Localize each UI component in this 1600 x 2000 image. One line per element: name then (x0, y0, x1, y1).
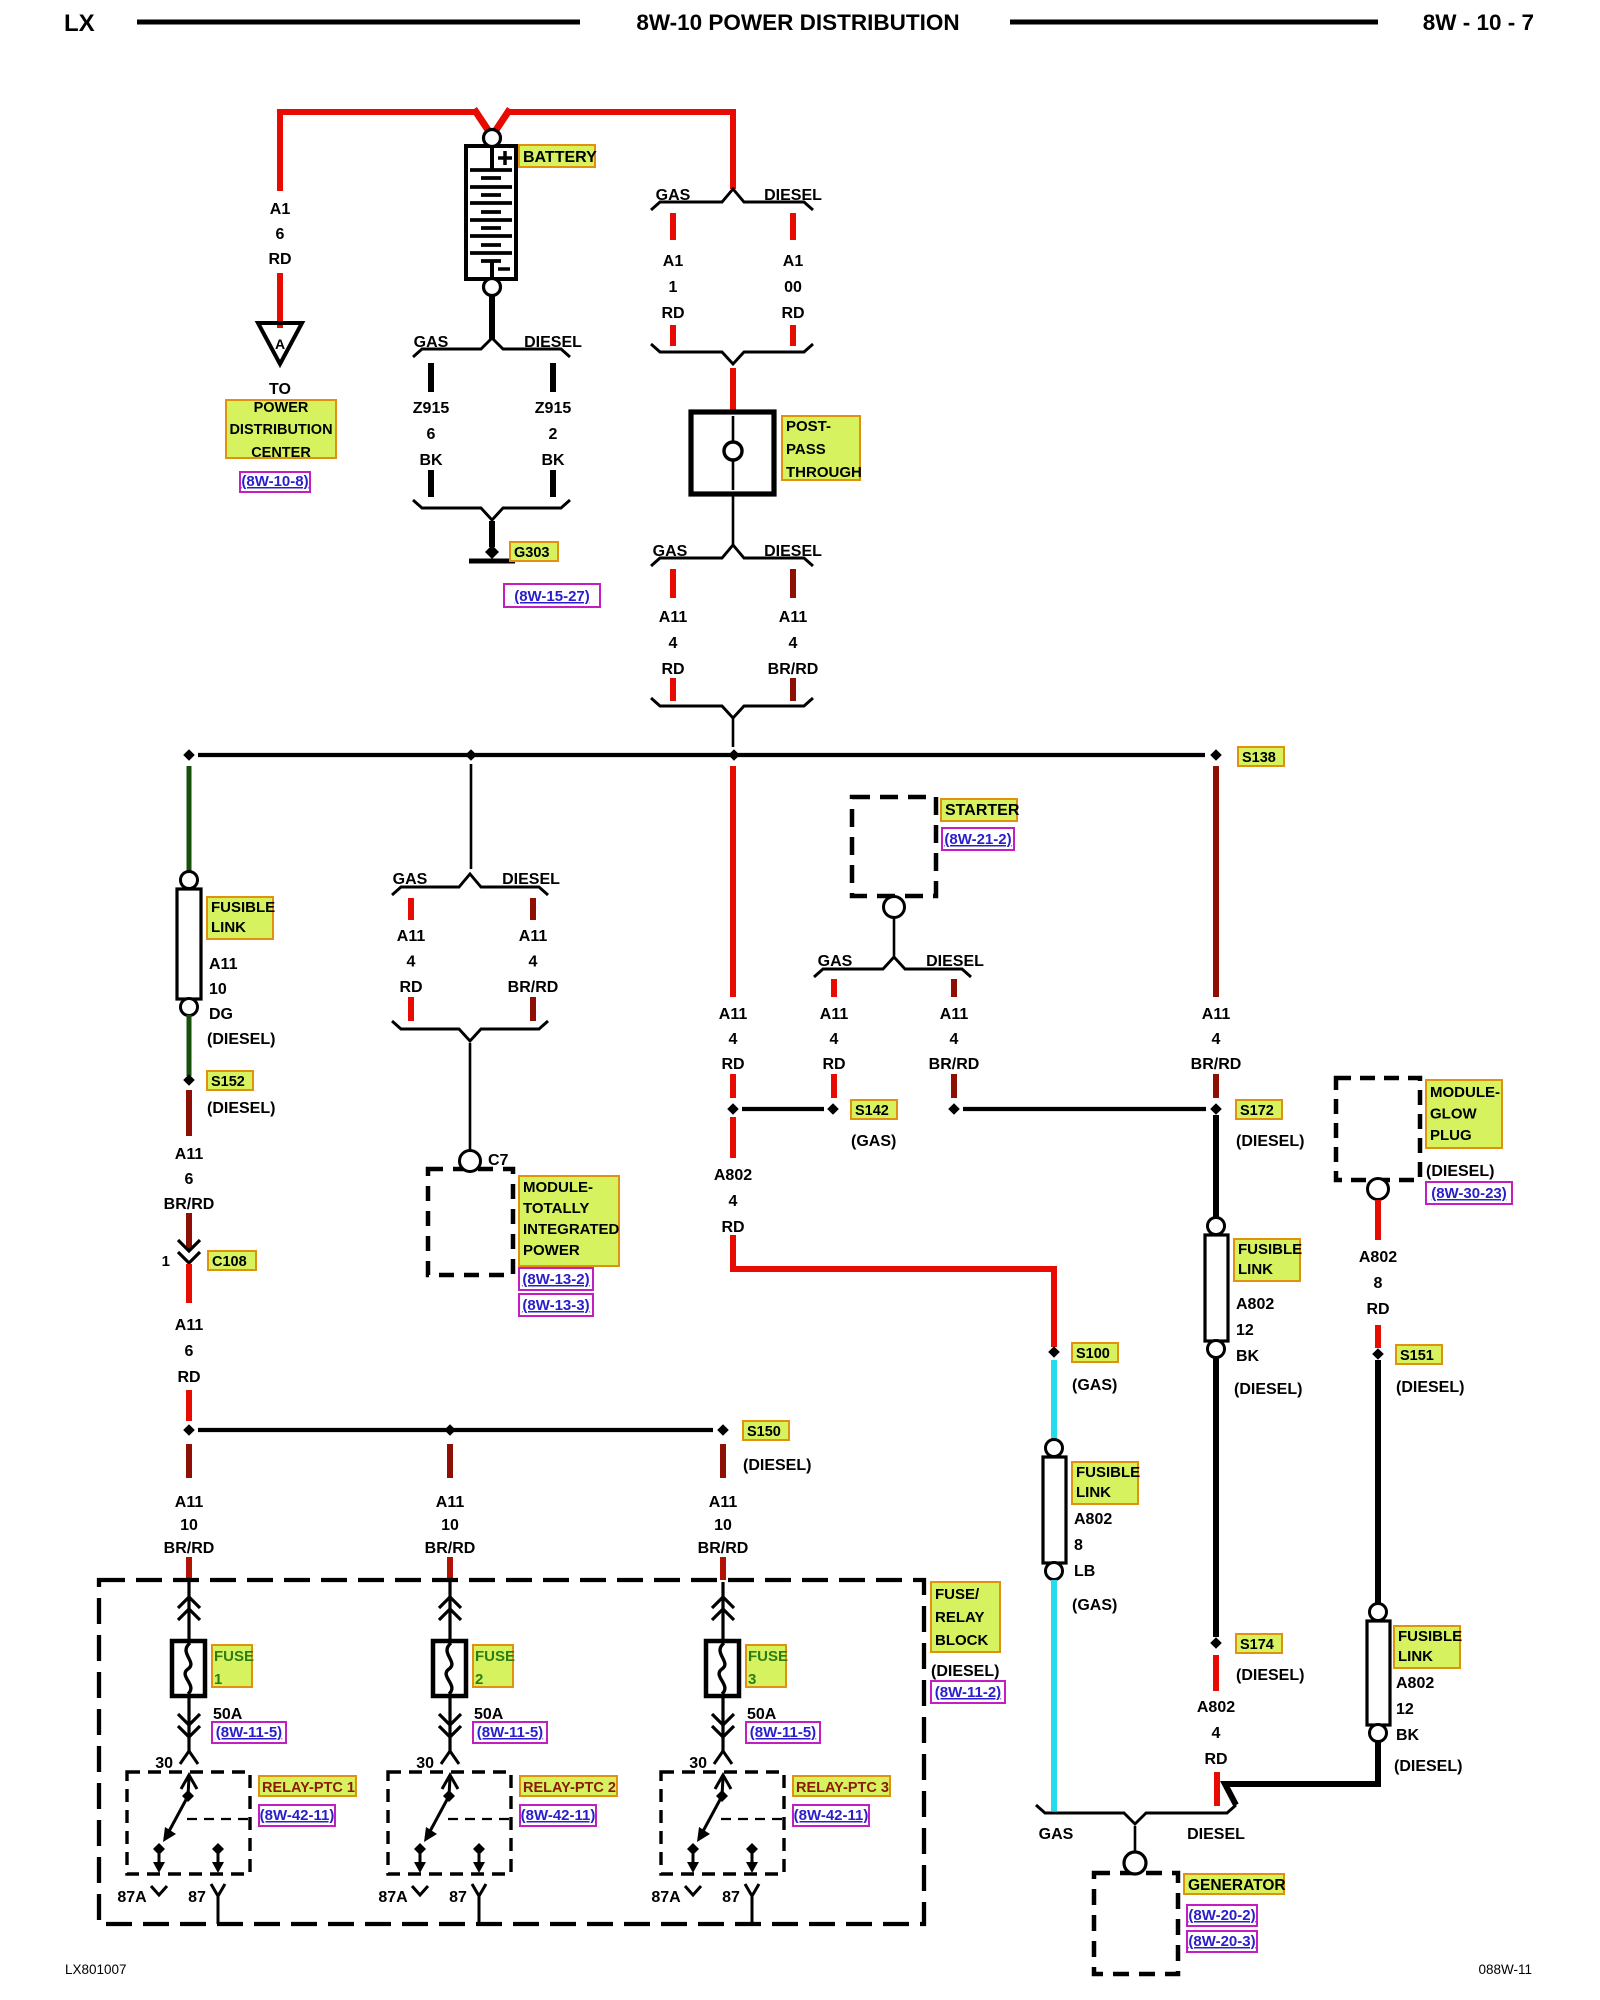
link 8W-10-8 (240, 472, 310, 492)
svg-text:S142: S142 (855, 1103, 889, 1119)
label wire A11 4 BR/RD starter (929, 1006, 980, 1073)
svg-text:BR/RD: BR/RD (425, 1540, 476, 1557)
svg-text:(8W-42-11): (8W-42-11) (260, 1807, 335, 1824)
svg-text:A1: A1 (270, 201, 291, 218)
wire A802 8 RD (1375, 1200, 1381, 1348)
overbrace GAS/DIESEL A1 split (651, 187, 822, 210)
node S152 (183, 1074, 195, 1086)
svg-text:GLOW: GLOW (1430, 1106, 1477, 1123)
svg-text:4: 4 (789, 635, 798, 652)
svg-text:A802: A802 (1197, 1699, 1235, 1716)
label wire A1 00 RD (781, 253, 804, 322)
svg-text:LB: LB (1074, 1563, 1095, 1580)
label wire A11 6 RD (175, 1317, 204, 1386)
svg-text:4: 4 (1212, 1031, 1221, 1048)
wire S172 to fusible link (1213, 1115, 1219, 1219)
label (DIESEL) dg (207, 1031, 275, 1048)
svg-text:A802: A802 (1359, 1249, 1397, 1266)
wire dash A11 4 BR/RD starter (951, 1074, 957, 1098)
svg-text:A1: A1 (663, 253, 684, 270)
node S172 (948, 1103, 1222, 1115)
wire A802 8 LB lower (1051, 1580, 1057, 1811)
svg-text:BR/RD: BR/RD (698, 1540, 749, 1557)
label (DIESEL) s150 (743, 1457, 811, 1474)
wire fusible link to generator diesel (1225, 1742, 1378, 1805)
svg-text:4: 4 (407, 954, 416, 971)
svg-text:GAS: GAS (393, 871, 428, 888)
svg-text:DIESEL: DIESEL (926, 953, 984, 970)
svg-text:GENERATOR: GENERATOR (1188, 1877, 1286, 1894)
svg-text:RD: RD (399, 979, 422, 996)
svg-text:30: 30 (689, 1755, 707, 1772)
svg-text:4: 4 (830, 1031, 839, 1048)
svg-text:10: 10 (180, 1517, 198, 1534)
svg-text:30: 30 (416, 1755, 434, 1772)
wire dash A11 4 BR/RD right (1213, 1074, 1219, 1098)
fuse/relay block box (99, 1580, 924, 1924)
svg-text:A11: A11 (659, 609, 688, 626)
svg-text:87: 87 (722, 1889, 740, 1906)
label wire A802 12 BK (s151) (1396, 1675, 1434, 1744)
svg-text:RD: RD (1366, 1301, 1389, 1318)
link 8W-30-23 (1426, 1182, 1512, 1204)
generator box (1094, 1873, 1178, 1974)
node S152 label (207, 1071, 253, 1090)
label wire A11 4 BR/RD (768, 609, 819, 678)
svg-text:(8W-11-2): (8W-11-2) (935, 1684, 1001, 1701)
svg-text:TOTALLY: TOTALLY (523, 1200, 589, 1217)
svg-text:(GAS): (GAS) (1072, 1377, 1117, 1394)
node S100 label (1072, 1343, 1118, 1362)
highlight FUSE/RELAY BLOCK (931, 1582, 1000, 1652)
fuse 3 label (746, 1645, 788, 1688)
svg-text:PLUG: PLUG (1430, 1127, 1472, 1144)
ground G303 (469, 545, 515, 561)
node S100 (1048, 1346, 1060, 1358)
node S142 label (851, 1100, 897, 1119)
label (DIESEL) s152 (207, 1100, 275, 1117)
svg-text:(8W-20-2): (8W-20-2) (1188, 1907, 1255, 1924)
svg-text:A802: A802 (1074, 1511, 1112, 1528)
svg-text:FUSE: FUSE (214, 1648, 254, 1665)
label wire Z915 6 BK (413, 400, 450, 469)
svg-text:10: 10 (441, 1517, 459, 1534)
wire Z915 2 BK (diesel) (550, 363, 556, 497)
svg-text:6: 6 (185, 1343, 194, 1360)
label wire A802 8 RD (1359, 1249, 1397, 1318)
fuse 3 rating 50A (747, 1706, 777, 1723)
svg-text:(8W-11-5): (8W-11-5) (750, 1724, 816, 1741)
label (DIESEL) glow (1426, 1163, 1494, 1180)
svg-text:LINK: LINK (1398, 1648, 1433, 1665)
svg-text:DIESEL: DIESEL (764, 543, 822, 560)
link 8W-15-27 (504, 584, 600, 607)
pin 30 socket (1) (155, 1751, 198, 1772)
fusible link A11 10 DG (177, 872, 201, 1016)
svg-text:6: 6 (185, 1171, 194, 1188)
generator connector (1124, 1826, 1146, 1874)
node C108 label (208, 1251, 256, 1270)
svg-text:FUSE/: FUSE/ (935, 1586, 980, 1603)
svg-text:S151: S151 (1400, 1348, 1434, 1364)
relay PTC 2 label (520, 1776, 617, 1796)
svg-text:1: 1 (162, 1253, 170, 1270)
wire DG to S152 (187, 1015, 192, 1076)
svg-text:A11: A11 (779, 609, 808, 626)
svg-text:Z915: Z915 (535, 400, 572, 417)
svg-text:A11: A11 (719, 1006, 748, 1023)
svg-text:RD: RD (822, 1056, 845, 1073)
svg-text:LINK: LINK (1076, 1484, 1111, 1501)
link 8W-11-5 (2) (473, 1722, 547, 1743)
svg-text:87A: 87A (378, 1889, 408, 1906)
wire to post-pass through (730, 368, 736, 416)
wire A11 10 BR/RD column 3 (720, 1444, 726, 1581)
wire A802 4 RD to S100 (733, 1117, 1054, 1347)
link 8W-42-11 (1) (259, 1805, 335, 1826)
svg-text:A11: A11 (175, 1494, 204, 1511)
svg-text:FUSIBLE: FUSIBLE (1238, 1241, 1302, 1258)
svg-text:50A: 50A (213, 1706, 243, 1723)
svg-text:RD: RD (781, 305, 804, 322)
wire A1 1 RD (gas) (670, 213, 676, 346)
svg-text:C108: C108 (212, 1254, 247, 1270)
svg-text:87: 87 (449, 1889, 467, 1906)
svg-text:2: 2 (549, 426, 558, 443)
svg-text:BR/RD: BR/RD (164, 1196, 215, 1213)
header rule left (137, 20, 580, 25)
svg-text:BR/RD: BR/RD (164, 1540, 215, 1557)
post-pass through feed stud (691, 412, 774, 494)
svg-text:G303: G303 (514, 545, 549, 561)
svg-text:87A: 87A (651, 1889, 681, 1906)
link 8W-42-11 (3) (793, 1805, 869, 1826)
footer doc id (65, 1962, 127, 1977)
label wire A11 10 DG (209, 956, 238, 1023)
wire A11 4 RD (gas) (670, 569, 676, 701)
svg-text:DIESEL: DIESEL (524, 334, 582, 351)
highlight POWER DISTRIBUTION CENTER (226, 400, 336, 461)
svg-text:S172: S172 (1240, 1103, 1274, 1119)
svg-text:A11: A11 (209, 956, 238, 973)
svg-text:FUSE: FUSE (748, 1648, 788, 1665)
bus wire S150 (183, 1424, 729, 1436)
svg-text:INTEGRATED: INTEGRATED (523, 1221, 620, 1238)
wire A11 4 RD main (730, 766, 736, 997)
svg-text:A11: A11 (820, 1006, 849, 1023)
svg-text:RELAY: RELAY (935, 1609, 984, 1626)
svg-text:DISTRIBUTION: DISTRIBUTION (229, 422, 332, 438)
label TO (269, 381, 291, 398)
node S138 label (1238, 747, 1284, 766)
label wire A11 4 RD starter (820, 1006, 849, 1073)
svg-text:GAS: GAS (653, 543, 688, 560)
svg-text:MODULE-: MODULE- (1430, 1084, 1500, 1101)
relay PTC 1 pins 87A/87 (117, 1884, 225, 1924)
svg-text:RELAY-PTC 1: RELAY-PTC 1 (262, 1780, 355, 1796)
svg-text:8: 8 (1374, 1275, 1383, 1292)
svg-text:(GAS): (GAS) (1072, 1597, 1117, 1614)
link 8W-20-2 (1187, 1905, 1257, 1926)
svg-text:POWER: POWER (254, 400, 309, 416)
svg-text:A11: A11 (940, 1006, 969, 1023)
wire A11 6 RD (186, 1264, 192, 1421)
svg-text:A802: A802 (714, 1167, 752, 1184)
fusible link A802 8 LB (1043, 1440, 1066, 1580)
relay PTC 1 (127, 1772, 250, 1874)
node S172 label (1236, 1100, 1282, 1119)
label wire A1 1 RD (661, 253, 684, 322)
underbrace A1 join (651, 344, 813, 364)
svg-text:CENTER: CENTER (251, 445, 311, 461)
svg-text:THROUGH: THROUGH (786, 464, 862, 481)
relay PTC 1 label (259, 1776, 356, 1796)
pin 30 socket (2) (416, 1751, 459, 1772)
relay PTC 3 (661, 1772, 784, 1874)
svg-text:00: 00 (784, 279, 802, 296)
svg-text:MODULE-: MODULE- (523, 1179, 593, 1196)
fusible link A802 12 BK (s151) (1367, 1604, 1390, 1742)
svg-text:(8W-20-3): (8W-20-3) (1188, 1933, 1255, 1950)
highlight G303 (510, 542, 558, 561)
svg-text:(8W-13-2): (8W-13-2) (522, 1271, 589, 1288)
svg-text:C7: C7 (488, 1152, 509, 1169)
svg-text:4: 4 (669, 635, 678, 652)
svg-text:6: 6 (276, 226, 285, 243)
wire A11 4 BR/RD right (1213, 766, 1219, 997)
link 8W-21-2 (942, 828, 1014, 850)
header label LX (64, 10, 95, 37)
node S174 label (1236, 1634, 1282, 1653)
svg-text:LINK: LINK (1238, 1261, 1273, 1278)
wire A11 10 DG (187, 766, 192, 872)
svg-text:1: 1 (214, 1671, 222, 1688)
svg-text:4: 4 (729, 1193, 738, 1210)
wire dash A11 4 RD main (730, 1074, 736, 1098)
highlight POST-PASS THROUGH (782, 416, 862, 481)
label (DIESEL) s172 (1236, 1133, 1304, 1150)
svg-text:6: 6 (427, 426, 436, 443)
svg-text:(8W-10-8): (8W-10-8) (241, 473, 308, 490)
svg-text:(8W-42-11): (8W-42-11) (521, 1807, 596, 1824)
wire starter to split (893, 918, 896, 958)
svg-text:3: 3 (748, 1671, 756, 1688)
svg-text:BK: BK (541, 452, 565, 469)
svg-text:Z915: Z915 (413, 400, 450, 417)
svg-text:50A: 50A (474, 1706, 504, 1723)
svg-text:BLOCK: BLOCK (935, 1632, 988, 1649)
label wire A11 10 BR/RD column 3 (698, 1494, 749, 1557)
underbrace A11 join (651, 698, 813, 718)
wire to connector C7 (469, 1043, 472, 1152)
svg-text:LX: LX (64, 10, 95, 37)
label (DIESEL) bk s172 (1234, 1381, 1302, 1398)
svg-text:(DIESEL): (DIESEL) (743, 1457, 811, 1474)
wire A11 4 BR/RD (starter diesel) (951, 979, 957, 997)
svg-text:GAS: GAS (818, 953, 853, 970)
link 8W-20-3 (1187, 1931, 1257, 1952)
svg-text:BATTERY: BATTERY (523, 149, 597, 166)
label wire A11 4 RD main (719, 1006, 748, 1073)
svg-text:BR/RD: BR/RD (508, 979, 559, 996)
svg-text:S150: S150 (747, 1424, 781, 1440)
svg-text:DIESEL: DIESEL (1187, 1826, 1245, 1843)
link 8W-11-5 (1) (212, 1722, 286, 1743)
svg-text:FUSIBLE: FUSIBLE (211, 899, 275, 916)
fuse 1 (172, 1582, 205, 1751)
relay PTC 2 pins 87A/87 (378, 1884, 486, 1924)
svg-text:S138: S138 (1242, 750, 1276, 766)
overbrace GAS/DIESEL A11 split (651, 543, 822, 566)
underbrace to ground G303 (413, 500, 570, 520)
svg-text:10: 10 (209, 981, 227, 998)
svg-text:1: 1 (669, 279, 678, 296)
wire bus to TIPM split (470, 764, 473, 869)
wire A1 00 RD (diesel) (790, 213, 796, 346)
svg-text:RELAY-PTC 2: RELAY-PTC 2 (523, 1780, 616, 1796)
module TIPM box (428, 1169, 513, 1275)
node S150 label (743, 1421, 789, 1440)
link 8W-13-3 (519, 1294, 593, 1316)
bus wire S138 (183, 749, 1222, 761)
module glow plug box (1336, 1078, 1420, 1200)
svg-text:RD: RD (721, 1056, 744, 1073)
svg-text:RD: RD (1204, 1751, 1227, 1768)
svg-text:(DIESEL): (DIESEL) (207, 1031, 275, 1048)
svg-text:RD: RD (721, 1219, 744, 1236)
pin 30 socket (3) (689, 1751, 732, 1772)
label wire A802 4 RD (714, 1167, 752, 1236)
label wire A11 6 BR/RD (164, 1146, 215, 1213)
svg-text:RD: RD (661, 305, 684, 322)
svg-text:12: 12 (1396, 1701, 1414, 1718)
svg-text:BK: BK (1236, 1348, 1260, 1365)
wire split to bus (732, 718, 735, 747)
label wire A11 4 BR/RD right (1191, 1006, 1242, 1073)
svg-text:A802: A802 (1396, 1675, 1434, 1692)
svg-text:2: 2 (475, 1671, 483, 1688)
label wire A802 8 LB (1074, 1511, 1112, 1580)
svg-text:A1: A1 (783, 253, 804, 270)
wire A1 6 RD battery positive feed (280, 109, 733, 191)
wire pass-through to split (732, 494, 735, 547)
node S151 (1372, 1348, 1384, 1360)
wire fusible link to S174 (1213, 1358, 1219, 1637)
label wire A1 6 RD (268, 201, 291, 268)
svg-text:8W-10 POWER DISTRIBUTION: 8W-10 POWER DISTRIBUTION (636, 10, 959, 35)
highlight BATTERY (519, 145, 597, 167)
svg-text:(8W-42-11): (8W-42-11) (794, 1807, 869, 1824)
header title 8W-10 POWER DISTRIBUTION (636, 10, 959, 35)
wire A11 4 RD (tipm gas) (408, 898, 414, 1021)
wire A11 4 BR/RD (diesel) (790, 569, 796, 701)
fuse 2 (433, 1582, 466, 1751)
wire to ground (489, 521, 495, 547)
svg-text:(8W-30-23): (8W-30-23) (1431, 1185, 1507, 1202)
svg-text:POWER: POWER (523, 1242, 580, 1259)
fuse 2 rating 50A (474, 1706, 504, 1723)
fuse 1 rating 50A (213, 1706, 243, 1723)
label (GAS) lb (1072, 1597, 1117, 1614)
connector triangle A (258, 323, 302, 364)
svg-text:LINK: LINK (211, 919, 246, 936)
svg-text:BK: BK (419, 452, 443, 469)
svg-text:088W-11: 088W-11 (1478, 1962, 1532, 1977)
svg-text:87A: 87A (117, 1889, 147, 1906)
svg-text:BR/RD: BR/RD (768, 661, 819, 678)
highlight STARTER (941, 799, 1020, 821)
label (DIESEL) s151 (1396, 1379, 1464, 1396)
svg-text:(8W-11-5): (8W-11-5) (477, 1724, 543, 1741)
label (DIESEL) bk s151 (1394, 1758, 1462, 1775)
svg-text:GAS: GAS (1039, 1826, 1074, 1843)
svg-text:8: 8 (1074, 1537, 1083, 1554)
svg-text:STARTER: STARTER (945, 802, 1020, 819)
svg-text:A11: A11 (397, 928, 426, 945)
svg-text:8W - 10 - 7: 8W - 10 - 7 (1423, 10, 1534, 35)
svg-text:TO: TO (269, 381, 291, 398)
svg-text:(8W-13-3): (8W-13-3) (522, 1297, 589, 1314)
svg-text:LX801007: LX801007 (65, 1962, 127, 1977)
label (GAS) s100 (1072, 1377, 1117, 1394)
svg-text:A802: A802 (1236, 1296, 1274, 1313)
label wire Z915 2 BK (535, 400, 572, 469)
connector C108 (162, 1240, 200, 1270)
link 8W-11-2 (931, 1681, 1005, 1703)
svg-text:RD: RD (268, 251, 291, 268)
svg-text:S152: S152 (211, 1074, 245, 1090)
svg-text:4: 4 (950, 1031, 959, 1048)
highlight FUSIBLE LINK (BK s172) (1234, 1239, 1302, 1281)
svg-text:FUSIBLE: FUSIBLE (1398, 1628, 1462, 1645)
svg-text:(DIESEL): (DIESEL) (931, 1663, 999, 1680)
relay PTC 2 (388, 1772, 511, 1874)
wire A11 10 BR/RD column 1 (186, 1444, 192, 1581)
svg-text:FUSIBLE: FUSIBLE (1076, 1464, 1140, 1481)
svg-text:BR/RD: BR/RD (929, 1056, 980, 1073)
svg-text:(DIESEL): (DIESEL) (1234, 1381, 1302, 1398)
underbrace GAS/DIESEL generator (1036, 1805, 1245, 1843)
header page number (1423, 10, 1534, 35)
wire dash A11 4 RD starter (831, 1074, 837, 1098)
svg-text:POST-: POST- (786, 418, 831, 435)
wire segment into triangle A (277, 273, 283, 328)
svg-text:RD: RD (177, 1369, 200, 1386)
label (GAS) s142 (851, 1133, 896, 1150)
svg-text:PASS: PASS (786, 441, 826, 458)
svg-text:A11: A11 (175, 1146, 204, 1163)
relay PTC 3 label (793, 1776, 890, 1796)
highlight FUSIBLE LINK (DG) (207, 897, 275, 939)
svg-text:(DIESEL): (DIESEL) (207, 1100, 275, 1117)
svg-text:(DIESEL): (DIESEL) (1236, 1133, 1304, 1150)
svg-text:(8W-15-27): (8W-15-27) (514, 588, 590, 605)
label wire A802 4 RD s174 (1197, 1699, 1235, 1768)
link 8W-13-2 (519, 1268, 593, 1290)
highlight FUSIBLE LINK (LB) (1072, 1462, 1140, 1504)
highlight GENERATOR (1184, 1874, 1286, 1894)
overbrace GAS/DIESEL starter split (814, 953, 984, 977)
fuse 2 label (473, 1645, 515, 1688)
svg-text:30: 30 (155, 1755, 173, 1772)
battery (466, 130, 516, 296)
svg-text:(DIESEL): (DIESEL) (1396, 1379, 1464, 1396)
label wire A11 4 RD tipm (397, 928, 426, 996)
svg-text:12: 12 (1236, 1322, 1254, 1339)
wire A802 4 RD generator diesel (1216, 1655, 1217, 1806)
label wire A11 10 BR/RD column 1 (164, 1494, 215, 1557)
highlight MODULE-TOTALLY INTEGRATED POWER (519, 1176, 620, 1266)
